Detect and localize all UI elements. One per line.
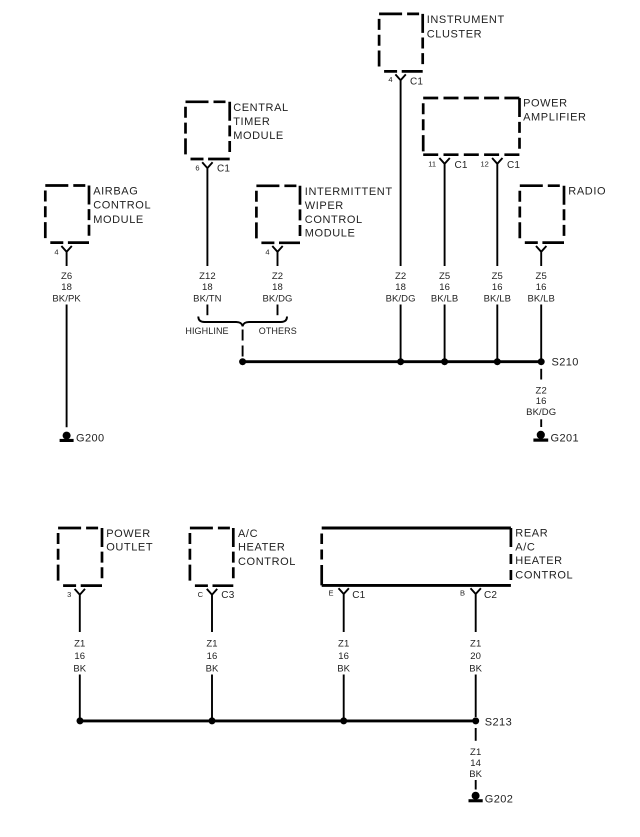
- svg-text:C2: C2: [484, 590, 497, 601]
- svg-text:AIRBAG: AIRBAG: [93, 185, 138, 197]
- svg-text:C1: C1: [217, 164, 230, 175]
- svg-text:CLUSTER: CLUSTER: [427, 28, 483, 40]
- junction dot at amplifier pin 11 wire: [441, 358, 448, 365]
- label POWER AMPLIFIER: [523, 98, 586, 124]
- connector of intermittent wiper control module: [272, 246, 282, 266]
- label Z5 16 BK/LB (radio): [527, 271, 554, 305]
- label Z12 18 BK/TN: [193, 271, 222, 305]
- svg-text:A/C: A/C: [515, 541, 535, 553]
- wire Z1 14 BK from S213 to G202: [475, 728, 477, 790]
- svg-text:CENTRAL: CENTRAL: [233, 102, 289, 114]
- svg-text:POWER: POWER: [523, 98, 568, 110]
- svg-text:BK: BK: [469, 663, 482, 674]
- label S210: [552, 357, 579, 369]
- label REAR A/C HEATER CONTROL: [515, 528, 573, 582]
- label Z2 16 BK/DG (S210 to G201): [526, 385, 556, 418]
- svg-text:BK/DG: BK/DG: [262, 294, 292, 305]
- brace joining HIGHLINE and OTHERS wires: [198, 317, 287, 327]
- pin 3 of power outlet: [67, 590, 71, 599]
- label POWER OUTLET: [106, 528, 153, 554]
- connector C1 of central timer module: [202, 162, 212, 180]
- label C1 (instrument cluster): [410, 77, 423, 88]
- svg-text:MODULE: MODULE: [233, 130, 284, 142]
- wire Z5 16 BK/LB from power amplifier pin 11: [444, 175, 446, 359]
- label S213: [485, 717, 512, 729]
- svg-text:HIGHLINE: HIGHLINE: [185, 326, 228, 336]
- ground G202: [469, 792, 483, 803]
- rear a/c heater control box: [322, 528, 511, 585]
- svg-text:Z5: Z5: [439, 271, 450, 282]
- bus wire to splice S210: [243, 360, 542, 363]
- svg-text:6: 6: [195, 164, 199, 173]
- label A/C HEATER CONTROL: [238, 528, 296, 568]
- wire Z6 18 BK/PK from airbag control module to G200: [66, 305, 68, 428]
- connector C3 of a/c heater control: [207, 589, 217, 632]
- svg-text:BK/TN: BK/TN: [193, 294, 222, 305]
- label G202: [485, 794, 514, 806]
- wire Z2 18 BK/DG from instrument cluster: [400, 93, 402, 359]
- svg-text:A/C: A/C: [238, 528, 258, 540]
- svg-text:Z1: Z1: [206, 638, 217, 649]
- label RADIO: [568, 185, 606, 197]
- a/c heater control box: [190, 528, 233, 586]
- svg-text:MODULE: MODULE: [93, 214, 144, 226]
- label Z2 18 BK/DG (instrument cluster): [386, 271, 416, 305]
- svg-text:C: C: [198, 590, 204, 599]
- splice S210: [538, 358, 545, 365]
- svg-text:18: 18: [202, 282, 213, 293]
- label HIGHLINE: [185, 326, 228, 336]
- svg-text:CONTROL: CONTROL: [93, 200, 151, 212]
- svg-text:OUTLET: OUTLET: [106, 542, 153, 554]
- svg-text:16: 16: [207, 651, 218, 662]
- label INTERMITTENT WIPER CONTROL MODULE: [305, 186, 393, 240]
- svg-text:MODULE: MODULE: [305, 227, 356, 239]
- connector C1 of rear a/c heater control: [339, 588, 349, 632]
- svg-text:4: 4: [265, 247, 269, 256]
- svg-text:16: 16: [536, 396, 547, 407]
- connector C1 pin 12 of power amplifier: [492, 158, 502, 175]
- bus wire to splice S213: [80, 719, 476, 722]
- wire from brace to splice: [242, 330, 244, 358]
- label Z5 16 BK/LB (pin 12): [484, 271, 511, 305]
- label Z1 20 BK (rear a/c C2): [469, 638, 482, 674]
- wire Z5 16 BK/LB from radio: [540, 305, 542, 359]
- svg-text:HEATER: HEATER: [238, 542, 285, 554]
- wire Z1 20 BK from rear a/c C2: [475, 675, 477, 718]
- pin 4 of airbag control module: [54, 247, 58, 256]
- svg-text:16: 16: [536, 282, 547, 293]
- svg-text:C1: C1: [352, 590, 365, 601]
- svg-text:S213: S213: [485, 717, 512, 729]
- svg-text:AMPLIFIER: AMPLIFIER: [523, 111, 586, 123]
- svg-text:BK: BK: [337, 663, 350, 674]
- connector of radio: [536, 246, 546, 266]
- label AIRBAG CONTROL MODULE: [93, 185, 151, 226]
- pin E of rear a/c heater control: [328, 589, 333, 598]
- svg-text:Z1: Z1: [74, 638, 85, 649]
- svg-text:20: 20: [470, 651, 481, 662]
- pin B of rear a/c heater control: [460, 589, 465, 598]
- label C2 (rear a/c): [484, 590, 497, 601]
- junction dot at a/c heater wire: [209, 717, 216, 724]
- label C1 (power amplifier pin 11): [455, 160, 468, 171]
- svg-text:CONTROL: CONTROL: [238, 556, 296, 568]
- svg-text:18: 18: [395, 282, 406, 293]
- label C1 (power amplifier pin 12): [507, 160, 520, 171]
- ground G201: [533, 431, 548, 442]
- svg-text:Z12: Z12: [199, 271, 216, 282]
- svg-text:CONTROL: CONTROL: [305, 214, 363, 226]
- svg-text:11: 11: [428, 159, 436, 168]
- svg-text:Z1: Z1: [338, 638, 349, 649]
- svg-text:Z2: Z2: [395, 271, 406, 282]
- svg-text:C1: C1: [507, 160, 520, 171]
- svg-text:C3: C3: [221, 590, 234, 601]
- svg-text:BK/PK: BK/PK: [52, 294, 81, 305]
- label Z1 16 BK (a/c heater control): [206, 638, 219, 674]
- wire Z1 16 BK from rear a/c C1: [343, 675, 345, 720]
- svg-text:BK/DG: BK/DG: [386, 294, 416, 305]
- pin 4 of intermittent wiper control module: [265, 247, 269, 256]
- junction dot at power outlet wire: [77, 717, 84, 724]
- label CENTRAL TIMER MODULE: [233, 102, 289, 142]
- label Z5 16 BK/LB (pin 11): [431, 271, 458, 305]
- pin c of a/c heater control: [198, 590, 204, 599]
- svg-text:Z2: Z2: [536, 385, 547, 396]
- svg-text:BK/DG: BK/DG: [526, 407, 556, 418]
- svg-text:TIMER: TIMER: [233, 116, 270, 128]
- svg-text:INTERMITTENT: INTERMITTENT: [305, 186, 393, 198]
- svg-text:Z5: Z5: [536, 271, 547, 282]
- label C1 (central timer module): [217, 164, 230, 175]
- svg-text:Z5: Z5: [492, 271, 503, 282]
- svg-text:BK/LB: BK/LB: [527, 294, 554, 305]
- label G200: [76, 433, 105, 445]
- power amplifier box: [423, 98, 519, 155]
- svg-text:POWER: POWER: [106, 528, 151, 540]
- svg-text:Z1: Z1: [470, 638, 481, 649]
- label Z1 16 BK (rear a/c C1): [337, 638, 350, 674]
- label INSTRUMENT CLUSTER: [427, 14, 505, 41]
- connector C2 of rear a/c heater control: [471, 588, 481, 632]
- svg-text:16: 16: [492, 282, 503, 293]
- connector of airbag control module: [61, 246, 71, 266]
- label C3: [221, 590, 234, 601]
- svg-text:16: 16: [338, 651, 349, 662]
- label G201: [551, 433, 580, 445]
- intermittent wiper control module box: [256, 186, 300, 243]
- svg-text:18: 18: [61, 282, 72, 293]
- connector of power outlet: [75, 589, 85, 632]
- svg-text:G201: G201: [551, 433, 580, 445]
- svg-text:3: 3: [67, 590, 71, 599]
- central timer module box: [186, 102, 230, 159]
- pin 4 of instrument cluster C1: [388, 75, 392, 84]
- svg-text:G202: G202: [485, 794, 514, 806]
- svg-text:BK: BK: [469, 769, 482, 780]
- label Z1 16 BK (power outlet): [73, 638, 86, 674]
- svg-text:REAR: REAR: [515, 528, 548, 540]
- airbag control module box: [45, 186, 89, 243]
- wire Z5 16 BK/LB from power amplifier pin 12: [496, 175, 498, 359]
- svg-text:WIPER: WIPER: [305, 200, 344, 212]
- instrument cluster module box: [379, 14, 423, 72]
- svg-text:BK/LB: BK/LB: [431, 294, 458, 305]
- svg-text:G200: G200: [76, 433, 105, 445]
- label Z1 14 BK (S213 to G202): [469, 747, 482, 780]
- svg-text:Z2: Z2: [272, 271, 283, 282]
- junction dot at instrument cluster wire: [397, 358, 404, 365]
- svg-text:RADIO: RADIO: [568, 185, 606, 197]
- svg-text:C1: C1: [455, 160, 468, 171]
- svg-text:C1: C1: [410, 77, 423, 88]
- junction dot at amplifier pin 12 wire: [494, 358, 501, 365]
- label Z6 18 BK/PK: [52, 271, 81, 305]
- svg-text:CONTROL: CONTROL: [515, 570, 573, 582]
- svg-text:18: 18: [272, 282, 283, 293]
- svg-text:Z1: Z1: [470, 747, 481, 758]
- power outlet box: [58, 528, 102, 586]
- splice S213: [472, 717, 479, 724]
- wire Z1 16 BK from power outlet: [79, 675, 81, 720]
- svg-text:HEATER: HEATER: [515, 555, 562, 567]
- svg-text:OTHERS: OTHERS: [259, 326, 297, 336]
- wire Z12 18 BK/TN from central timer module: [206, 180, 208, 315]
- label OTHERS: [259, 326, 297, 336]
- svg-text:4: 4: [54, 247, 58, 256]
- svg-text:BK: BK: [73, 663, 86, 674]
- junction dot at rear a/c C1 wire: [340, 717, 347, 724]
- svg-text:S210: S210: [552, 357, 579, 369]
- svg-text:B: B: [460, 589, 465, 598]
- wire Z1 16 BK from a/c heater control: [211, 675, 213, 720]
- svg-text:BK: BK: [206, 663, 219, 674]
- svg-text:BK/LB: BK/LB: [484, 294, 511, 305]
- pin 12 of power amplifier: [480, 159, 488, 168]
- ground G200: [60, 432, 74, 442]
- wire Z2 18 BK/DG from intermittent wiper control module: [277, 305, 279, 316]
- svg-text:Z6: Z6: [61, 271, 72, 282]
- svg-text:16: 16: [439, 282, 450, 293]
- pin 11 of power amplifier: [428, 159, 436, 168]
- label Z2 18 BK/DG (wiper): [262, 271, 292, 305]
- radio box: [520, 186, 564, 243]
- svg-text:16: 16: [74, 651, 85, 662]
- svg-text:INSTRUMENT: INSTRUMENT: [427, 14, 505, 26]
- pin 6 of central timer module C1: [195, 164, 199, 173]
- connector C1 of instrument cluster: [395, 74, 405, 93]
- label C1 (rear a/c): [352, 590, 365, 601]
- wire Z2 16 BK/DG from S210 to G201: [540, 369, 542, 427]
- connector C1 pin 11 of power amplifier: [439, 158, 449, 175]
- junction dot at brace wire: [239, 358, 246, 365]
- svg-text:12: 12: [480, 159, 488, 168]
- svg-text:E: E: [328, 589, 333, 598]
- svg-text:4: 4: [388, 75, 392, 84]
- svg-text:14: 14: [470, 758, 481, 769]
